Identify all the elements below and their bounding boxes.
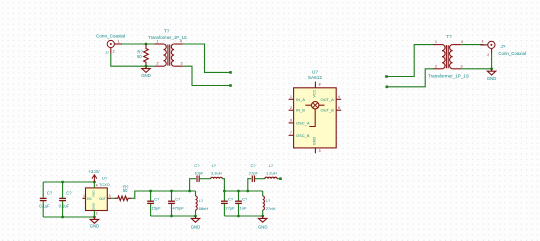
svg-text:L?: L? [269, 163, 274, 168]
svg-text:1nF: 1nF [240, 206, 247, 211]
svg-text:L?: L? [266, 198, 271, 203]
svg-text:50: 50 [137, 54, 142, 59]
svg-text:4: 4 [338, 95, 340, 99]
wire [387, 69, 433, 87]
svg-text:OUT_A: OUT_A [320, 97, 334, 102]
pin 8 VCC [314, 82, 316, 88]
svg-text:T?: T? [164, 29, 170, 34]
svg-text:IN_A: IN_A [296, 97, 305, 102]
svg-text:4: 4 [180, 39, 182, 43]
ground (output) [487, 69, 495, 75]
wire [131, 191, 150, 198]
svg-text:OSC_A: OSC_A [296, 120, 310, 125]
svg-text:27pF: 27pF [249, 171, 259, 176]
svg-text:VDD: VDD [91, 190, 95, 197]
junction [149, 190, 152, 193]
wire [248, 179, 252, 191]
mixer U1 body [294, 88, 337, 148]
oscillator pins [93, 182, 95, 188]
junction [61, 216, 64, 219]
svg-text:1: 1 [157, 39, 159, 43]
svg-text:GND: GND [258, 224, 268, 229]
junction [237, 215, 240, 218]
pin 5 OUT_B [336, 109, 341, 111]
svg-text:C?: C? [250, 163, 256, 168]
svg-text:50: 50 [123, 188, 128, 193]
wire [222, 179, 224, 191]
svg-text:4: 4 [461, 40, 463, 44]
svg-text:2: 2 [96, 212, 98, 216]
mixer symbol [312, 102, 319, 109]
transformer secondary winding [450, 45, 453, 69]
junction [223, 190, 226, 193]
svg-text:SA612: SA612 [308, 75, 322, 80]
junction [237, 190, 240, 193]
pin 1 IN_A [289, 98, 294, 100]
wire [190, 179, 196, 191]
svg-text:1: 1 [290, 95, 292, 99]
wire [224, 215, 262, 217]
pin 6 OSC_A [289, 122, 294, 124]
svg-text:1: 1 [83, 194, 85, 198]
svg-text:2: 2 [487, 53, 489, 57]
junction [93, 216, 96, 219]
wire [277, 178, 281, 180]
junction [93, 181, 96, 184]
svg-text:L?: L? [212, 163, 217, 168]
junction [61, 181, 64, 184]
wire end [229, 84, 232, 87]
wire [111, 54, 155, 67]
wire end [229, 71, 232, 74]
svg-text:15pF: 15pF [152, 206, 162, 211]
svg-text:0.1uF: 0.1uF [39, 203, 50, 208]
wire [122, 43, 155, 45]
svg-text:L?: L? [199, 198, 204, 203]
ground (oscillator) [90, 217, 98, 223]
svg-text:3: 3 [109, 194, 111, 198]
pin 7 OSC_B [289, 134, 294, 136]
junction [170, 190, 173, 193]
svg-text:3: 3 [319, 149, 321, 153]
wire [43, 181, 94, 183]
wire [151, 215, 196, 217]
svg-text:GND: GND [90, 224, 100, 229]
junction [188, 190, 191, 193]
svg-text:1.2uH: 1.2uH [266, 171, 277, 176]
svg-text:C?: C? [154, 196, 160, 201]
junction [490, 67, 493, 70]
svg-text:J?: J? [105, 51, 109, 55]
junction [170, 215, 173, 218]
svg-text:10pF: 10pF [194, 171, 204, 176]
svg-text:4: 4 [96, 184, 98, 188]
svg-text:GND: GND [91, 202, 95, 210]
pin 4 OUT_A [336, 98, 341, 100]
svg-text:3: 3 [461, 64, 463, 68]
svg-text:C?: C? [242, 196, 248, 201]
transformer core [167, 45, 169, 66]
svg-text:C?: C? [194, 163, 200, 168]
wire [461, 44, 484, 46]
svg-text:C?: C? [175, 196, 181, 201]
junction [261, 215, 264, 218]
pin 2 shield J2 [491, 49, 493, 54]
transformer primary winding [155, 43, 164, 45]
svg-text:OUT: OUT [99, 197, 106, 201]
svg-text:8: 8 [319, 82, 321, 86]
svg-text:1: 1 [435, 40, 437, 44]
junction [145, 65, 148, 68]
svg-text:2: 2 [435, 64, 437, 68]
svg-text:OUT_B: OUT_B [320, 108, 334, 113]
wire [461, 68, 491, 70]
wire end [385, 75, 388, 78]
svg-text:2: 2 [157, 62, 159, 66]
wire [183, 66, 231, 85]
svg-text:+3.3V: +3.3V [88, 169, 99, 174]
svg-text:27pF: 27pF [225, 206, 235, 211]
wire [491, 53, 493, 69]
wire [151, 190, 196, 192]
svg-text:2: 2 [113, 50, 115, 54]
wire [43, 216, 94, 218]
svg-text:6: 6 [290, 119, 292, 123]
svg-text:C?: C? [47, 191, 53, 196]
svg-text:470pF: 470pF [173, 206, 185, 211]
transformer primary winding [433, 44, 442, 46]
wire [387, 45, 434, 77]
svg-text:3: 3 [181, 62, 183, 66]
svg-text:C?: C? [228, 196, 234, 201]
svg-text:1: 1 [481, 40, 483, 44]
svg-text:Conn_Coaxial: Conn_Coaxial [498, 51, 526, 56]
ground (filter group2) [259, 216, 267, 222]
wire end [279, 177, 282, 180]
wire [183, 44, 231, 72]
svg-text:GND: GND [312, 137, 316, 146]
svg-text:GND: GND [191, 224, 201, 229]
transformer core [445, 45, 447, 68]
svg-text:68nH: 68nH [199, 206, 209, 211]
svg-text:2: 2 [290, 106, 292, 110]
svg-text:5: 5 [338, 106, 340, 110]
svg-text:GND: GND [487, 76, 497, 81]
pin 2 IN_B [289, 109, 294, 111]
svg-text:Conn_Coaxial: Conn_Coaxial [96, 33, 125, 38]
svg-text:EN: EN [87, 197, 92, 201]
svg-text:T?: T? [446, 34, 452, 39]
ground (filter group1) [191, 216, 199, 222]
oscillator X1 body [86, 188, 108, 211]
svg-text:C?: C? [66, 191, 72, 196]
svg-text:7: 7 [290, 131, 292, 135]
svg-text:0.1uF: 0.1uF [59, 203, 70, 208]
junction [246, 190, 249, 193]
svg-text:GND: GND [141, 73, 151, 78]
junction [145, 43, 148, 46]
pin 2 shield [110, 48, 112, 54]
ground (input termination) [142, 66, 150, 72]
svg-text:TCXO: TCXO [99, 182, 110, 187]
svg-text:OSC_B: OSC_B [296, 133, 310, 138]
svg-text:Transformer_1P_1S: Transformer_1P_1S [428, 74, 469, 79]
wire end [386, 86, 389, 89]
svg-text:U?: U? [102, 176, 108, 181]
svg-text:U?: U? [312, 69, 318, 74]
wire [224, 190, 262, 192]
svg-text:IN_B: IN_B [296, 108, 305, 113]
svg-text:1: 1 [118, 39, 120, 43]
junction [194, 215, 197, 218]
transformer secondary winding [171, 44, 174, 66]
svg-text:J?: J? [501, 44, 506, 49]
svg-text:VCC: VCC [312, 89, 316, 97]
svg-text:27nH: 27nH [266, 206, 276, 211]
svg-text:3.3uH: 3.3uH [211, 171, 222, 176]
pin 3 GND [314, 148, 316, 153]
